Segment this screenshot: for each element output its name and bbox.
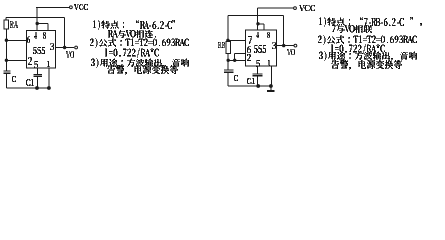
node pins4-8 junction right <box>256 22 259 25</box>
op-amp U2 555 right <box>245 30 276 66</box>
wire pin8 stub right <box>263 24 265 30</box>
wire pin3 output left <box>56 47 75 49</box>
pin 5 left <box>34 61 38 68</box>
pin 6 left <box>27 36 30 43</box>
wire RA bottom rail <box>5 29 7 71</box>
capacitor C left top plate <box>4 70 11 72</box>
note line 1 left <box>93 20 175 30</box>
label C1 left <box>26 79 34 86</box>
note line 2 right <box>332 25 372 33</box>
node pin1 bottom junction right <box>269 84 273 88</box>
note line 5 right <box>319 51 417 61</box>
label RB <box>218 42 225 48</box>
capacitor C right bottom plate <box>224 71 233 73</box>
node C1 bottom junction left <box>35 86 39 90</box>
wire C1 left down <box>36 76 38 88</box>
wire ground rail right <box>228 85 272 87</box>
node pin2 junction right <box>227 59 230 62</box>
wire RA-VO horizontal left <box>6 16 64 18</box>
node pin6 junction right <box>233 59 236 62</box>
note line 6 left <box>107 65 178 75</box>
wire RB bottom rail <box>227 53 229 70</box>
wire pin7-VO horizontal <box>228 15 284 17</box>
op-amp U1 555 left <box>27 31 56 69</box>
note line 6 right <box>331 60 402 70</box>
wire pin1 stub right <box>270 66 272 86</box>
wire pin6 right <box>235 52 246 54</box>
ground stub <box>270 86 272 90</box>
pin 1 right <box>268 60 270 66</box>
node VO junction left <box>63 46 66 49</box>
pin 5 right <box>256 60 260 67</box>
note line 5 left <box>91 58 189 68</box>
pin 6 right <box>247 46 251 53</box>
pin 1 left <box>47 61 50 67</box>
node pin1 bottom junction left <box>47 86 51 90</box>
wire pin7-VO vertical <box>283 16 285 46</box>
note line 3 right <box>318 35 417 45</box>
label C left <box>12 76 16 82</box>
node pins4-8 junction left <box>36 22 39 25</box>
wire pin7 rail drop <box>227 16 229 42</box>
ground bar <box>267 90 275 92</box>
wire pin3 output right <box>276 45 294 47</box>
wire pin6 drop right <box>234 53 236 60</box>
wire pin4 drop right <box>257 8 259 30</box>
label VCC left <box>74 4 88 10</box>
wire pin8 stub left <box>47 24 49 31</box>
wire C1 right down <box>257 76 259 86</box>
resistor RA <box>4 20 8 29</box>
wire pin7 into box <box>228 39 246 41</box>
node C1 bottom junction right <box>256 84 260 88</box>
label C1 right <box>247 78 255 84</box>
note line 4 right <box>331 44 385 54</box>
pin 2 right <box>247 54 251 61</box>
wire VCC rail left <box>36 6 69 8</box>
note line 3 left <box>90 38 189 48</box>
label VO right <box>287 49 295 55</box>
pin 2 left <box>28 57 32 65</box>
pin 7 right <box>248 36 252 44</box>
capacitor C1 right bottom plate <box>253 75 263 77</box>
note line 1 right <box>319 17 422 27</box>
wire pin1 stub left <box>48 68 50 88</box>
wire C left down <box>5 73 7 88</box>
label RA <box>10 21 18 28</box>
wire pin4 drop left <box>36 7 38 30</box>
pin 4 left <box>34 32 37 39</box>
pin 4 right <box>256 32 259 38</box>
pin 8 right <box>267 32 270 38</box>
node VO junction right <box>282 44 285 47</box>
resistor RB <box>226 41 231 53</box>
capacitor C1 left top plate <box>34 73 43 75</box>
note line 2 left <box>108 30 156 38</box>
wire C right down <box>227 72 229 86</box>
capacitor C right top plate <box>224 69 233 71</box>
wire RA top stub <box>5 17 7 20</box>
capacitor C1 right top plate <box>253 73 263 75</box>
wire VCC rail right <box>258 7 294 9</box>
wire RA-VO vertical left <box>64 17 66 47</box>
terminal VCC left <box>70 6 73 9</box>
label 555 left <box>33 47 45 54</box>
node pin7 junction <box>226 39 229 42</box>
terminal VCC right <box>294 7 297 10</box>
wire pin5 stub left <box>36 68 38 74</box>
terminal VO right <box>294 44 297 47</box>
wire pin4-pin8 link right <box>258 23 264 25</box>
capacitor C left bottom plate <box>4 72 11 74</box>
wire pin6 left <box>6 39 26 41</box>
label C right <box>234 75 238 81</box>
capacitor C1 left bottom plate <box>34 75 43 77</box>
note line 4 left <box>105 48 159 58</box>
pin 3 right <box>272 42 276 49</box>
pin 8 left <box>43 32 46 39</box>
label 555 right <box>254 45 266 53</box>
label VCC right <box>299 5 315 11</box>
label VO left <box>66 51 74 58</box>
wire pin2 left <box>6 59 26 61</box>
node pin2 junction left <box>5 59 8 62</box>
wire ground rail left <box>6 87 49 89</box>
wire pin5 stub right <box>257 66 259 74</box>
node pin6 junction left <box>5 39 8 42</box>
terminal VO left <box>75 46 78 49</box>
wire pin4-pin8 link left <box>37 23 48 25</box>
wire pin2 right <box>228 59 245 61</box>
pin 3 left <box>50 43 54 50</box>
